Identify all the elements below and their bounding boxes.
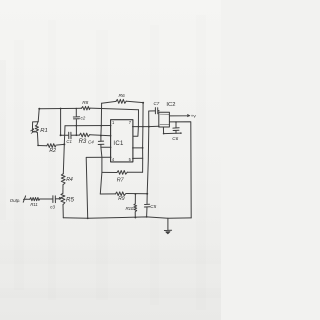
resistor R1 (boxed, LDR style) — [32, 122, 38, 132]
junction (101.3,125.6) — [100, 125, 102, 127]
resistor R5 — [61, 193, 65, 204]
svg-text:R8: R8 — [82, 100, 88, 105]
svg-text:+v: +v — [191, 114, 197, 119]
svg-text:R9: R9 — [118, 196, 125, 202]
resistor R2 — [47, 144, 56, 148]
svg-text:R6: R6 — [119, 93, 126, 99]
junction (132.9,126.6) — [132, 126, 134, 128]
wire R9 run — [100, 193, 147, 196]
wire output run — [26, 198, 58, 200]
junction (132.9,158.4) — [132, 158, 134, 160]
svg-text:C4: C4 — [88, 139, 94, 144]
junction (132.9,147.9) — [132, 147, 134, 149]
wire IC1 pin1 run y≈125.6 — [65, 125, 111, 127]
junction (38.1,145.4) — [37, 145, 39, 147]
junction (76.4,135.2) — [76, 134, 78, 136]
resistor R9 — [116, 192, 126, 196]
wire IC1 pin3 stub — [101, 146, 111, 148]
capacitor C6 — [173, 122, 179, 133]
svg-text:R2: R2 — [49, 148, 56, 154]
wire between R4/R5 — [62, 185, 64, 194]
junction (110.6,125.5) — [110, 125, 112, 127]
svg-text:R11: R11 — [30, 202, 37, 207]
svg-text:IC1: IC1 — [113, 141, 124, 147]
IC1 body — [111, 120, 133, 162]
wire R8 rail down to IC1 right pin — [133, 110, 139, 137]
junction (110.6,147.3) — [110, 147, 112, 149]
junction (163.6,133.6) — [163, 133, 165, 135]
capacitor C2 — [73, 109, 79, 136]
wire C1/R3 run — [61, 134, 111, 137]
junction (147.2,193.7) — [146, 193, 148, 195]
svg-text:R3: R3 — [79, 139, 87, 145]
junction (148.8,126.6) — [148, 126, 150, 128]
svg-text:R7: R7 — [117, 177, 125, 183]
junction (64.3,144.4) — [63, 143, 65, 145]
svg-text:C7: C7 — [154, 101, 160, 106]
wire +v — [169, 115, 189, 117]
junction (135.4,217.6) — [135, 217, 137, 219]
wire bottom rail — [63, 217, 191, 218]
junction (87.7,218.3) — [87, 217, 89, 219]
wire IC1 right pin y≈147.9 — [133, 147, 143, 149]
IC2 body — [159, 112, 170, 127]
output terminal — [23, 196, 26, 202]
resistor R11 — [30, 198, 40, 201]
resistor R8 — [82, 106, 91, 110]
capacitor C5 — [144, 194, 149, 217]
svg-text:C6: C6 — [172, 136, 178, 141]
junction (135.4,194) — [135, 193, 137, 195]
ground — [164, 218, 171, 230]
wire IC2 bottom drop + C6 bottom run — [163, 127, 181, 134]
capacitor C4 — [98, 141, 104, 144]
resistor R4 — [61, 174, 65, 185]
labels — [10, 93, 197, 211]
junction (158.8,110.8) — [158, 110, 159, 111]
junction (110.6,157.2) — [110, 156, 112, 158]
junction (158.8,126.2) — [158, 126, 159, 127]
wire IC1 pin8 right y≈126.6 to IC2 — [133, 125, 159, 127]
wire R6 top run — [102, 101, 144, 103]
capacitor C1 — [69, 132, 71, 139]
wire IC1 right pin y≈158.4 — [133, 157, 143, 159]
junction (142.9,126.6) — [142, 126, 144, 128]
capacitor C7 — [155, 108, 158, 114]
svg-text:Outp.: Outp. — [10, 198, 21, 203]
wire C7 corner + drop — [149, 111, 156, 127]
svg-text:C1: C1 — [66, 139, 72, 144]
svg-text:c2: c2 — [81, 116, 86, 121]
arrow into R5 — [59, 197, 62, 199]
wire mid vertical x≈64 down to R4 — [63, 126, 65, 174]
junction (100.9,135.6) — [100, 135, 102, 137]
wire long rail x≈148 down to R9 corner — [147, 127, 149, 194]
svg-text:C5: C5 — [150, 204, 156, 209]
svg-text:IC2: IC2 — [166, 102, 175, 108]
wire R6 rail down to R7 — [142, 103, 145, 173]
junction (76.3,125.6) — [76, 125, 78, 127]
wire R7 run — [102, 171, 143, 173]
resistor R6 — [116, 99, 126, 103]
svg-text:R1: R1 — [40, 128, 48, 134]
resistor R7 — [117, 171, 127, 175]
wire R2 run — [38, 144, 64, 145]
wire R5 to bottom — [62, 205, 64, 218]
junction (142.6,147.9) — [142, 147, 144, 149]
junction (60.6,108.5) — [60, 108, 62, 110]
wire left rail V1 — [38, 109, 39, 122]
junction (143.1,102.7) — [142, 102, 144, 104]
junction (180.9,133.1) — [180, 132, 182, 134]
svg-text:R10: R10 — [126, 206, 134, 211]
junction (110.6,135.7) — [110, 135, 112, 137]
R1 LDR arrows — [31, 129, 35, 134]
junction (60.6,135.3) — [60, 134, 62, 136]
junction (76.3,108.5) — [76, 108, 78, 110]
capacitor C3 — [53, 196, 56, 203]
wire V2 drop — [60, 109, 62, 136]
svg-text:R5: R5 — [66, 196, 74, 203]
junction (39.3,108.8) — [38, 108, 40, 110]
junction (146.6,216.9) — [146, 216, 148, 218]
resistor R10 vertical — [134, 194, 137, 218]
junction (138.4,126.6) — [138, 126, 140, 128]
svg-text:R4: R4 — [66, 177, 73, 183]
wire mega vertical x≈101 from R6 corner — [100, 103, 102, 194]
wire IC2 lower right to right rail — [169, 122, 191, 218]
svg-text:c3: c3 — [50, 205, 55, 210]
resistor R3 — [80, 133, 90, 137]
junction (176,122) — [175, 121, 177, 123]
wire top rail y≈108 from left corner to R8 right corner — [39, 108, 138, 110]
wire IC1 pin4 run + drop — [86, 157, 110, 218]
